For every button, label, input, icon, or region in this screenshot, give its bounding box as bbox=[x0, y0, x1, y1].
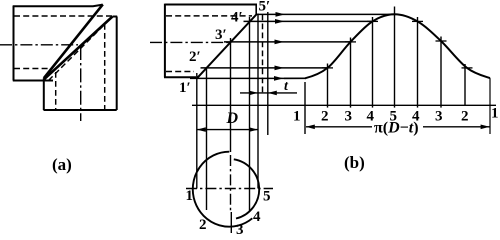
pipe C hidden inner bottom line bbox=[166, 71, 194, 73]
weld seam thick line lower bbox=[44, 17, 112, 80]
cut line 1'-5' oblique bbox=[197, 14, 257, 78]
curve tick at d8 bbox=[462, 67, 473, 69]
division line d3 bbox=[350, 38, 352, 108]
cross-section outer circle arc bbox=[193, 152, 253, 227]
arrow tip 4' bbox=[275, 19, 285, 24]
division line d2 bbox=[327, 64, 329, 108]
pipe A horizontal centerline bbox=[0, 44, 78, 46]
svg-text:3: 3 bbox=[236, 222, 244, 238]
svg-text:5′: 5′ bbox=[259, 0, 271, 15]
svg-text:2: 2 bbox=[199, 217, 207, 233]
pipe A bottom edge bbox=[13, 80, 53, 82]
t dim arrow left bbox=[249, 91, 258, 96]
pipe B hidden inner right line bbox=[104, 24, 106, 110]
division line d5 bbox=[394, 7, 396, 108]
svg-text:3: 3 bbox=[435, 109, 443, 125]
pipe C left edge bbox=[164, 4, 166, 78]
thickness t dimension line bbox=[240, 92, 297, 94]
development dimension line right part bbox=[423, 126, 490, 128]
curve tick at d7 bbox=[436, 40, 447, 42]
development left dim extension bbox=[304, 82, 306, 134]
pipe B left edge bbox=[43, 78, 45, 110]
division vertical 3 solid upper bbox=[230, 38, 232, 152]
pipe B vertical right edge bbox=[116, 17, 118, 111]
curve tick at d2 bbox=[322, 67, 333, 69]
pipe A horizontal outline top edge bbox=[13, 5, 103, 7]
division line d7 bbox=[440, 37, 442, 108]
weld seam thick line upper bbox=[44, 4, 103, 78]
division vertical 4 bbox=[249, 17, 251, 211]
hidden inner wall dashed vertical bbox=[262, 15, 264, 94]
projection line from 2' bbox=[201, 67, 329, 69]
svg-text:3: 3 bbox=[345, 109, 353, 125]
division vertical 3 lower tail bbox=[230, 212, 232, 233]
svg-text:1′: 1′ bbox=[179, 80, 191, 96]
svg-text:4: 4 bbox=[367, 109, 375, 125]
svg-text:2: 2 bbox=[321, 109, 329, 125]
pipe B hidden inner left line bbox=[55, 72, 57, 110]
curve tick at d3 bbox=[345, 41, 356, 43]
pipe A left edge bbox=[13, 6, 15, 81]
pipe B bottom edge bbox=[44, 109, 117, 111]
division line d8 bbox=[464, 64, 466, 106]
projection line from 1' bbox=[190, 77, 306, 79]
diameter D dimension line bbox=[197, 129, 258, 131]
svg-text:2′: 2′ bbox=[189, 49, 201, 65]
pipe A hidden inner top line bbox=[14, 15, 112, 17]
svg-text:2: 2 bbox=[461, 109, 469, 125]
projection line from 5' bbox=[257, 13, 396, 15]
svg-text:t: t bbox=[284, 79, 289, 94]
development baseline bbox=[192, 104, 496, 106]
pipe A hidden inner bottom line bbox=[14, 68, 51, 70]
svg-text:1: 1 bbox=[293, 109, 301, 125]
arrow tip 2' bbox=[275, 66, 285, 71]
svg-text:(a): (a) bbox=[52, 155, 72, 174]
arrow tip 5' bbox=[276, 12, 286, 17]
division vertical 3 centerline lower bbox=[230, 155, 232, 212]
dev dim arrow right bbox=[481, 125, 490, 130]
pipe C hidden inner top line bbox=[166, 15, 252, 17]
svg-text:4′: 4′ bbox=[231, 10, 243, 26]
D dim arrow right bbox=[249, 127, 258, 132]
svg-text:3′: 3′ bbox=[215, 27, 227, 43]
svg-text:5: 5 bbox=[263, 189, 271, 205]
arrow tip 1' bbox=[274, 76, 284, 81]
circle horizontal centerline bbox=[186, 188, 273, 190]
division vertical 2 bbox=[206, 68, 208, 211]
dev dim arrow left bbox=[306, 125, 315, 130]
pipe C top edge bbox=[165, 4, 256, 6]
pipe C bottom edge bbox=[164, 76, 196, 78]
development right edge bbox=[489, 78, 491, 134]
svg-text:D: D bbox=[226, 110, 239, 127]
pipe B top corner segment bbox=[113, 16, 118, 18]
division vertical 1 bbox=[196, 73, 198, 189]
projection line from 3' bbox=[224, 41, 352, 43]
svg-text:4: 4 bbox=[253, 209, 261, 225]
svg-text:(b): (b) bbox=[344, 153, 365, 172]
svg-text:1: 1 bbox=[186, 188, 194, 204]
svg-text:1: 1 bbox=[491, 106, 499, 122]
svg-text:5: 5 bbox=[390, 109, 398, 125]
division vertical 5 bbox=[257, 14, 259, 189]
development dimension line left part bbox=[306, 126, 372, 128]
curve tick at d4 bbox=[367, 20, 378, 22]
cross-section mean circle arc bbox=[234, 159, 259, 218]
pipe C horizontal centerline bbox=[150, 41, 230, 43]
hidden seam dashed oblique bbox=[49, 19, 111, 81]
development flat left tail bbox=[284, 77, 306, 79]
curve tick at d6 bbox=[412, 20, 423, 22]
pipe B vertical centerline bbox=[80, 46, 82, 121]
outer wall vertical bbox=[267, 12, 269, 135]
svg-text:4: 4 bbox=[412, 109, 420, 125]
development curve bbox=[305, 14, 490, 78]
projection line from 4' bbox=[244, 20, 374, 22]
division line d4 bbox=[372, 17, 374, 108]
t dim arrow right bbox=[268, 91, 277, 96]
D dim arrow left bbox=[197, 127, 206, 132]
corner joggle at 5' bbox=[255, 4, 257, 15]
division line d6 bbox=[417, 17, 419, 108]
arrow tip 3' bbox=[275, 40, 285, 45]
